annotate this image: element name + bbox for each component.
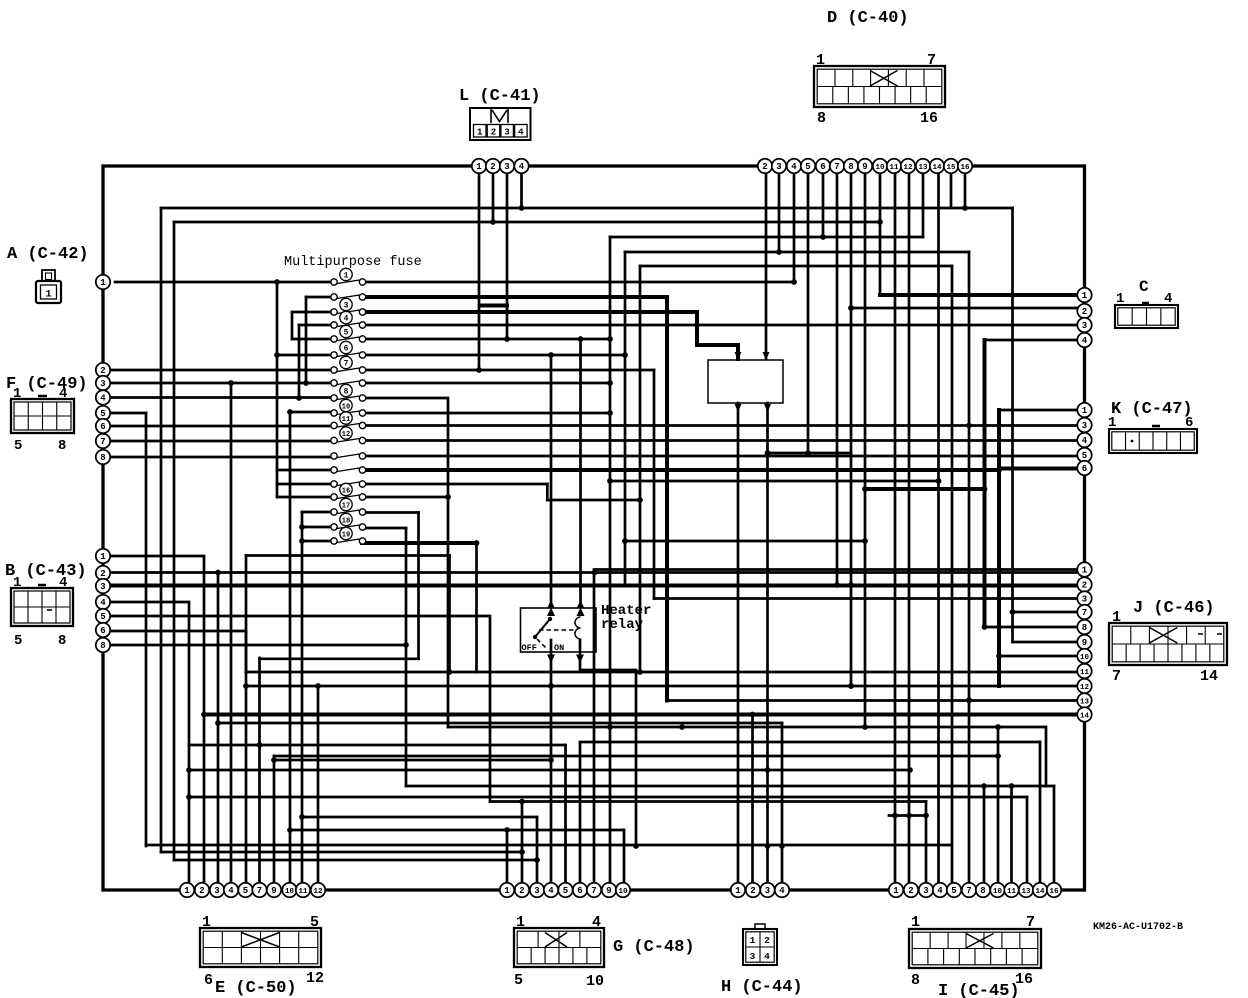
wire B6 route <box>103 631 246 672</box>
junction E10 f10 <box>287 409 293 415</box>
wire y760 link <box>274 759 551 762</box>
wire y481 link <box>610 480 939 483</box>
svg-text:5: 5 <box>14 438 22 454</box>
wire J7 feed <box>1013 611 1085 614</box>
wire y500 link <box>547 499 640 502</box>
wire fuse4 output to C3 <box>366 324 1084 327</box>
connector B pin 4 <box>96 595 110 609</box>
wire x547 drop <box>546 484 549 500</box>
wire K6 feed <box>999 467 1084 471</box>
junction f10 x610 <box>607 410 613 416</box>
svg-text:1: 1 <box>1112 609 1121 626</box>
junction C2 tap <box>848 305 854 311</box>
junction D10 <box>877 219 883 225</box>
svg-text:7: 7 <box>1082 608 1087 618</box>
wire E5 riser <box>245 556 248 891</box>
svg-text:1: 1 <box>1082 566 1088 576</box>
svg-text:3: 3 <box>1082 321 1087 331</box>
junction y723 left <box>215 720 221 726</box>
wire fuse10 left stub <box>290 411 331 414</box>
connector B pin 5 <box>96 609 110 623</box>
connector G pin 4 <box>544 883 558 897</box>
connector B housing <box>11 585 73 626</box>
junction D9 y541 <box>862 538 868 544</box>
connector E pin 7 <box>252 883 266 897</box>
wire y556 link <box>246 554 450 557</box>
junction G2 y852 <box>519 849 525 855</box>
connector D pin 11 <box>887 159 901 173</box>
svg-text:4: 4 <box>59 386 67 402</box>
connector L pin 3 <box>500 159 514 173</box>
svg-text:12: 12 <box>1080 684 1090 692</box>
svg-text:1: 1 <box>1082 291 1088 301</box>
wire I14 riser <box>1039 742 1042 890</box>
connector K pin 4 <box>1077 433 1091 447</box>
svg-text:14: 14 <box>932 164 942 172</box>
wire L4 stem <box>520 166 523 208</box>
box output arrow right <box>764 404 771 412</box>
wire G5 riser <box>564 745 567 890</box>
wire G1 riser <box>506 830 509 890</box>
svg-text:9: 9 <box>271 886 276 896</box>
svg-text:8: 8 <box>58 633 66 649</box>
svg-text:16: 16 <box>920 110 938 127</box>
wire relay coil feed <box>579 339 582 601</box>
connector C pin 3 <box>1077 318 1091 332</box>
svg-text:13: 13 <box>1080 699 1090 707</box>
junction L1 on fuse7 line <box>476 367 482 373</box>
svg-text:2: 2 <box>764 935 770 946</box>
junction G4 y760 <box>548 757 554 763</box>
svg-text:C: C <box>1139 278 1149 296</box>
fuse 6 <box>331 341 366 358</box>
wire y786 link <box>406 785 1054 788</box>
junction y489 right <box>982 486 988 492</box>
svg-text:14: 14 <box>1080 713 1090 721</box>
svg-text:8: 8 <box>911 972 920 989</box>
svg-text:3: 3 <box>504 128 509 138</box>
svg-text:H (C-44): H (C-44) <box>721 978 803 997</box>
connector D pin 4 <box>787 159 801 173</box>
connector D pin 15 <box>944 159 958 173</box>
wire D4 stem <box>793 166 796 282</box>
svg-text:6: 6 <box>577 886 582 896</box>
connector J pin 7 <box>1077 605 1091 619</box>
svg-text:8: 8 <box>1082 623 1087 633</box>
connector L pin 2 <box>486 159 500 173</box>
wire G6 riser to I14 <box>580 742 1040 890</box>
svg-text:19: 19 <box>342 531 350 539</box>
svg-text:10: 10 <box>993 888 1003 896</box>
wire fuse16 left stub <box>277 496 331 499</box>
wire D3 stem <box>778 166 781 252</box>
connector I pin 3 <box>919 883 933 897</box>
junction F3 bus y830 <box>287 827 293 833</box>
svg-text:11: 11 <box>889 164 899 172</box>
junction y453 left <box>765 450 771 456</box>
heater relay box <box>521 608 597 652</box>
junction J13 x969 <box>966 698 972 704</box>
connector A housing <box>36 270 61 303</box>
wire y453 link <box>768 452 852 455</box>
connector I pin 4 <box>933 883 947 897</box>
wire x418 riser <box>417 513 420 659</box>
svg-text:1: 1 <box>816 52 825 69</box>
wire relay bottom left drop to G4 <box>550 640 553 890</box>
connector E pin 5 <box>238 883 252 897</box>
wire y585 link <box>625 584 851 587</box>
junction f16 x448 <box>445 494 451 500</box>
junction L2 <box>490 219 496 225</box>
svg-text:17: 17 <box>342 502 350 510</box>
svg-text:9: 9 <box>1082 638 1087 648</box>
junction I1 <box>892 813 898 819</box>
wire D10 stem <box>879 166 882 295</box>
svg-text:8: 8 <box>58 438 66 454</box>
connector E pin 12 <box>311 883 325 897</box>
svg-text:7: 7 <box>591 886 596 896</box>
connector I pin 2 <box>904 883 918 897</box>
junction G4 y686 <box>548 683 554 689</box>
connector C pin 1 <box>1077 288 1091 302</box>
box input arrow right <box>763 352 770 360</box>
connector D pin 10 <box>873 159 887 173</box>
junction y797 left <box>186 794 192 800</box>
wire fuse14 output <box>366 468 999 472</box>
wire D7 stem <box>836 166 839 585</box>
svg-text:4: 4 <box>344 314 349 323</box>
junction H4 y846 <box>779 843 785 849</box>
junction I3 y815 <box>923 813 929 819</box>
svg-text:3: 3 <box>100 379 105 389</box>
connector I pin 5 <box>947 883 961 897</box>
svg-text:10: 10 <box>342 403 350 411</box>
wire x174 vertical from y222 <box>173 222 176 860</box>
connector L pin 1 <box>472 159 486 173</box>
svg-text:6: 6 <box>204 972 213 989</box>
wire fuse15 output <box>362 483 547 486</box>
wire F8 lead <box>103 456 331 459</box>
wire B8 lead <box>103 644 406 647</box>
svg-text:5: 5 <box>344 328 349 337</box>
wire y817 link <box>302 816 537 819</box>
relay dashed link <box>537 630 574 648</box>
svg-text:L (C-41): L (C-41) <box>459 87 541 106</box>
wire I16 riser <box>1053 786 1056 890</box>
connector H housing <box>743 924 777 965</box>
wire fuse7 output <box>366 369 654 372</box>
connector C pin 4 <box>1077 333 1091 347</box>
wire fuse5 output <box>366 338 610 341</box>
wire x625 vertical <box>624 252 627 585</box>
svg-text:2: 2 <box>199 886 204 896</box>
connector E pin 9 <box>267 883 281 897</box>
connector G housing <box>514 928 604 967</box>
svg-text:15: 15 <box>946 164 956 172</box>
junction f5 x610 <box>607 336 613 342</box>
svg-text:7: 7 <box>257 886 262 896</box>
wire G2 riser <box>521 802 524 891</box>
connector C housing <box>1115 303 1178 328</box>
svg-text:4: 4 <box>1164 291 1172 307</box>
wire L1 stem <box>478 166 481 370</box>
svg-text:1: 1 <box>893 886 899 896</box>
svg-text:1: 1 <box>100 552 106 562</box>
connector F pin 2 <box>96 363 110 377</box>
junction I8 y786 <box>981 783 987 789</box>
wire y745 link <box>189 744 566 747</box>
fuse 7 <box>331 356 366 373</box>
connector G pin 3 <box>530 883 544 897</box>
wire y852 horizontal to G2 <box>161 851 522 854</box>
wire fuse16 output <box>366 496 448 499</box>
wire F5 lead <box>103 412 146 415</box>
wire I11 riser <box>1010 786 1013 890</box>
connector B pin 1 <box>96 549 110 563</box>
junction D3 <box>776 249 782 255</box>
junction I2 <box>906 813 912 819</box>
svg-text:6: 6 <box>1082 464 1087 474</box>
wire fuse18 output <box>362 527 406 530</box>
wire fuse2 output <box>366 295 667 299</box>
svg-text:1: 1 <box>1082 406 1088 416</box>
svg-text:2: 2 <box>519 886 524 896</box>
wire fuse9 output route <box>366 398 448 727</box>
junction f6 x625 <box>622 352 628 358</box>
svg-text:4: 4 <box>519 162 525 172</box>
svg-text:5: 5 <box>805 162 810 172</box>
wire L2-D10 bus y222 <box>174 221 880 224</box>
connector H pin 3 <box>760 883 774 897</box>
wire C4 feed <box>985 339 1085 342</box>
wire F5 drop x146 <box>145 413 148 846</box>
junction bus f6 feed <box>274 352 280 358</box>
svg-text:6: 6 <box>100 422 105 432</box>
svg-text:11: 11 <box>342 416 350 424</box>
wire B4 route to E1 <box>103 602 189 890</box>
junction E11 y817 <box>299 814 305 820</box>
connector H pin 1 <box>731 883 745 897</box>
junction D8 tap <box>848 683 854 689</box>
wire fuse1 output to D4 <box>366 281 794 284</box>
wire fuse2-8 bus <box>305 297 308 383</box>
wire x610 vertical to G9 <box>609 237 612 890</box>
junction y770 right <box>907 767 913 773</box>
wire G7 riser to J1 <box>594 570 1084 891</box>
wire fuse3 left stub <box>292 311 331 314</box>
wire D2 stem to box <box>765 166 768 359</box>
svg-text:10: 10 <box>875 164 885 172</box>
svg-text:1: 1 <box>477 128 483 138</box>
junction H3 y846 <box>765 843 771 849</box>
wire I13 riser <box>1026 797 1029 890</box>
wire D15 stem <box>950 166 953 207</box>
svg-text:6: 6 <box>1185 415 1193 431</box>
junction E4 F3 line <box>228 380 234 386</box>
connector I pin 8 <box>976 883 990 897</box>
connector D pin 6 <box>816 159 830 173</box>
wire y756 link <box>274 755 998 758</box>
wire fuse3 output thick <box>366 312 738 359</box>
wire x476 drop <box>475 543 478 672</box>
unlabeled component box <box>708 360 783 403</box>
junction y727 x610 <box>607 724 613 730</box>
connector D pin 8 <box>844 159 858 173</box>
connector I pin 11 <box>1004 883 1018 897</box>
junction D14 y481 <box>936 478 942 484</box>
wire y489 thick link <box>865 487 985 491</box>
wire C2 feed <box>851 307 1084 310</box>
wire A1 lead solid <box>115 281 331 284</box>
wire fuse4-9 bus <box>298 325 301 398</box>
wire J8 feed <box>985 626 1085 629</box>
svg-text:6: 6 <box>100 626 105 636</box>
svg-text:7: 7 <box>834 162 839 172</box>
connector J pin 2 <box>1077 577 1091 591</box>
connector D pin 12 <box>901 159 915 173</box>
connector I housing <box>909 929 1041 968</box>
svg-text:5: 5 <box>951 886 956 896</box>
connector D pin 9 <box>858 159 872 173</box>
wire H3 riser to box <box>766 403 769 890</box>
wire E9 riser <box>273 756 276 890</box>
svg-text:4: 4 <box>791 162 797 172</box>
connector L pin 4 <box>514 159 528 173</box>
svg-text:E (C-50): E (C-50) <box>215 979 297 998</box>
relay top-right arrow <box>577 600 585 616</box>
junction bus f18 <box>299 524 305 530</box>
connector K pin 1 <box>1077 403 1091 417</box>
wire H4 riser <box>781 723 784 890</box>
wire J12 feed <box>999 685 1084 688</box>
junction D6 <box>820 234 826 240</box>
wire L2 stem <box>492 166 495 222</box>
svg-text:4: 4 <box>100 394 106 404</box>
wire F7 lead <box>103 440 331 443</box>
wire F3 lead <box>103 382 331 385</box>
junction x682 end <box>679 724 685 730</box>
wire C1 feed <box>880 293 1084 297</box>
svg-text:16: 16 <box>960 164 970 172</box>
junction block frame <box>103 166 1085 890</box>
connector F pin 8 <box>96 450 110 464</box>
junction G1 y830 <box>504 827 510 833</box>
wire B3 to J2 thick <box>103 584 1084 588</box>
connector F pin 7 <box>96 434 110 448</box>
junction D5 <box>805 450 811 456</box>
svg-text:1: 1 <box>1108 415 1116 431</box>
connector G pin 5 <box>558 883 572 897</box>
wire fuse6 output <box>366 354 625 357</box>
svg-text:3: 3 <box>765 886 770 896</box>
svg-text:J (C-46): J (C-46) <box>1133 599 1215 618</box>
wire D9 stem <box>864 166 867 727</box>
wire C4 vertical to J8 <box>983 340 987 627</box>
junction bus f9 <box>296 395 302 401</box>
junction E9 y760 <box>271 757 277 763</box>
svg-text:3: 3 <box>534 886 539 896</box>
connector J housing <box>1109 623 1227 665</box>
wire fuse19 left stub <box>302 540 331 543</box>
svg-text:8: 8 <box>100 641 105 651</box>
connector D pin 16 <box>958 159 972 173</box>
wire y727 horizontal <box>448 727 1046 786</box>
svg-text:8: 8 <box>848 162 853 172</box>
connector K pin 6 <box>1077 461 1091 475</box>
svg-text:8: 8 <box>980 886 985 896</box>
connector G pin 6 <box>573 883 587 897</box>
connector J pin 3 <box>1077 591 1091 605</box>
wire fuse6 left stub <box>277 354 331 357</box>
svg-text:OFF: OFF <box>522 643 537 653</box>
svg-text:1: 1 <box>202 914 211 931</box>
svg-text:11: 11 <box>1007 888 1017 896</box>
svg-text:3: 3 <box>214 886 219 896</box>
wire x952 vertical to I5 <box>951 266 954 890</box>
wire D11 stem to I1 <box>894 166 897 890</box>
wire J3 feed <box>654 597 1084 600</box>
wire y801 link <box>490 800 926 803</box>
wire K1 feed <box>999 409 1084 412</box>
fuse 12 <box>331 427 366 444</box>
junction f8 x610 <box>607 380 613 386</box>
svg-text:12: 12 <box>306 970 324 987</box>
wire y658 link <box>260 657 419 660</box>
wire D5 stem <box>807 166 810 453</box>
junction L3 on fuse5 line <box>504 336 510 342</box>
connector J pin 14 <box>1077 707 1091 721</box>
connector K pin 5 <box>1077 448 1091 462</box>
connector B pin 6 <box>96 623 110 637</box>
svg-text:2: 2 <box>750 886 755 896</box>
svg-text:1: 1 <box>911 914 920 931</box>
svg-text:relay: relay <box>601 617 644 633</box>
connector F pin 4 <box>96 390 110 404</box>
fuse 18 <box>331 513 366 530</box>
junction bus f19 <box>299 538 305 544</box>
svg-text:4: 4 <box>59 575 67 591</box>
wire L4-D16 bus y208 <box>161 207 1013 210</box>
junction D9 end <box>862 724 868 730</box>
svg-text:3: 3 <box>750 951 756 962</box>
svg-text:13: 13 <box>918 164 928 172</box>
connector G pin 2 <box>515 883 529 897</box>
svg-text:4: 4 <box>764 951 770 962</box>
connector I pin 7 <box>962 883 976 897</box>
svg-text:4: 4 <box>100 598 106 608</box>
svg-text:5: 5 <box>514 972 523 989</box>
connector G pin 10 <box>616 883 630 897</box>
svg-text:2: 2 <box>908 886 913 896</box>
connector I pin 16 <box>1047 883 1061 897</box>
junction y770 left <box>186 767 192 773</box>
wire x1012 vertical to J9 <box>1011 208 1014 642</box>
fuse 19 <box>331 527 366 544</box>
connector E pin 10 <box>282 883 296 897</box>
svg-text:4: 4 <box>228 886 234 896</box>
svg-text:14: 14 <box>1035 888 1045 896</box>
junction J14 E2 riser <box>201 712 207 718</box>
junction B8 branch <box>403 642 409 648</box>
junction G7 T <box>592 570 598 576</box>
connector C pin 2 <box>1077 304 1091 318</box>
svg-text:6: 6 <box>344 344 349 353</box>
svg-text:1: 1 <box>45 290 51 301</box>
svg-text:1: 1 <box>750 935 756 946</box>
relay bottom-left arrow <box>547 655 555 664</box>
junction relay return <box>633 843 639 849</box>
svg-text:3: 3 <box>776 162 781 172</box>
